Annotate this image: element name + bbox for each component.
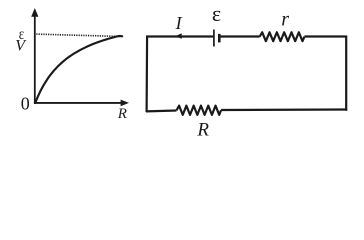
current arrow I on top wire (pointing left) bbox=[175, 33, 181, 39]
circuit loop wires bbox=[146, 32, 347, 115]
wire: top-right segment bbox=[304, 35, 346, 37]
wire: bottom-right segment bbox=[221, 108, 347, 111]
battery cell: long plate (positive) bbox=[213, 30, 215, 47]
graph x-axis arrowhead bbox=[121, 100, 129, 107]
svg-text:ε: ε bbox=[212, 1, 221, 26]
wire: battery to resistor r bbox=[220, 35, 260, 37]
svg-text:0: 0 bbox=[21, 93, 30, 113]
svg-text:R: R bbox=[117, 106, 127, 122]
graph V(R) curve bbox=[35, 36, 122, 103]
graph dotted asymptote line at emf level bbox=[36, 34, 121, 36]
wire: top-left segment to battery bbox=[146, 35, 213, 37]
svg-text:R: R bbox=[196, 119, 209, 140]
resistor R zigzag bbox=[177, 106, 222, 115]
wire: bottom-left segment bbox=[146, 109, 177, 112]
svg-text:r: r bbox=[281, 8, 289, 30]
wire: left side bbox=[146, 36, 149, 113]
svg-text:I: I bbox=[175, 13, 183, 33]
graph x-axis bbox=[34, 102, 121, 104]
resistor r zigzag bbox=[260, 32, 305, 41]
battery cell: short thick plate (negative) bbox=[218, 34, 221, 43]
graph y-axis bbox=[34, 15, 36, 105]
wire: right side bbox=[345, 36, 347, 111]
graph y-axis arrowhead bbox=[31, 8, 38, 17]
